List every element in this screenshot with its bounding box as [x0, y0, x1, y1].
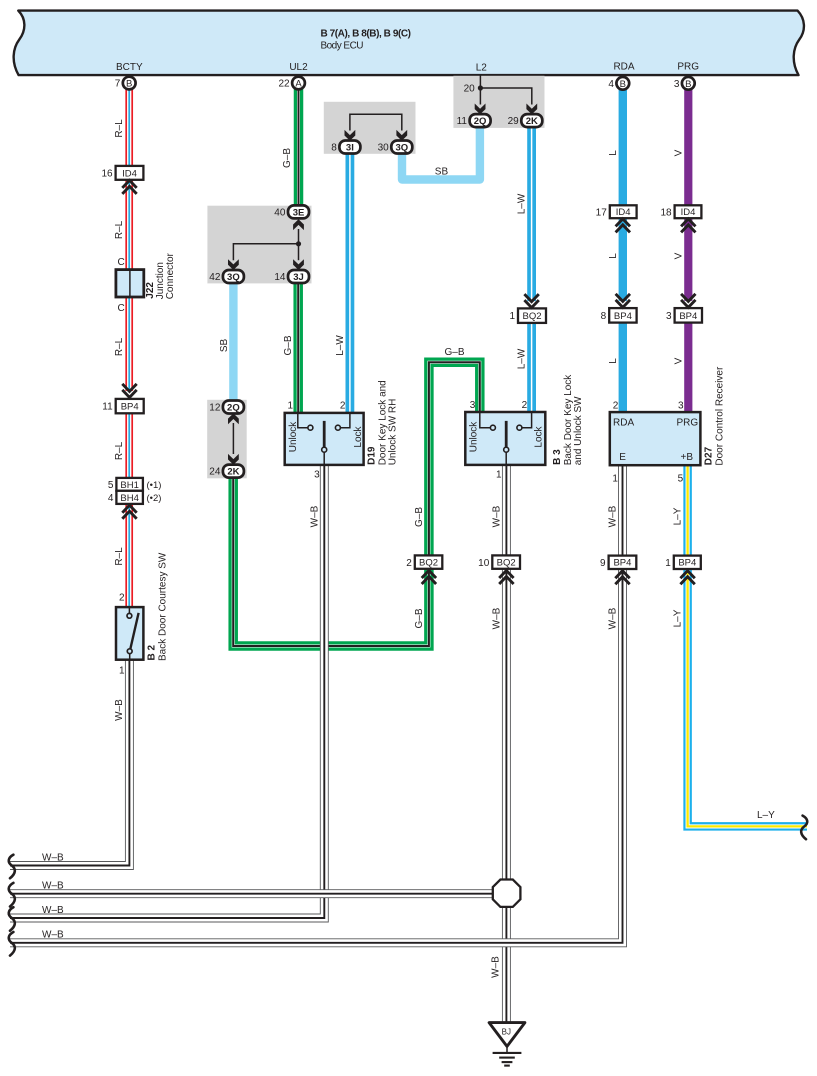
- svg-text:SB: SB: [435, 166, 449, 177]
- svg-text:(•2): (•2): [147, 493, 162, 504]
- wire L2 pin 20 lead: [479, 76, 481, 89]
- svg-text:RDA: RDA: [613, 418, 634, 429]
- chevron into 16 ID4: [122, 180, 136, 194]
- junction terminal 3J pin 14: [288, 270, 309, 283]
- svg-text:3E: 3E: [293, 207, 305, 218]
- svg-text:5: 5: [678, 474, 684, 485]
- ECU D27 Door Control Receiver: [610, 412, 701, 465]
- wire G-B loop from junction 2K(24) via BQ2 to B3 pin 3: [233, 362, 480, 646]
- pin 22(A) UL2: [292, 77, 305, 90]
- ground BJ: [489, 1023, 525, 1066]
- svg-text:W–B: W–B: [42, 881, 64, 892]
- gray junction block L2 (2Q/2K): [453, 76, 544, 128]
- svg-text:Connector: Connector: [165, 252, 176, 299]
- bridge wire 3I to 3Q(30): [350, 114, 402, 130]
- chevron into 2 BQ2: [422, 571, 436, 585]
- chevron into 1 BQ2: [524, 294, 538, 308]
- svg-text:SB: SB: [219, 339, 230, 353]
- svg-text:RDA: RDA: [613, 62, 634, 73]
- wire from node over to 3Q(42): [233, 244, 298, 260]
- svg-text:G–B: G–B: [445, 347, 465, 358]
- svg-text:40: 40: [274, 207, 286, 218]
- svg-text:B 3: B 3: [552, 449, 563, 465]
- svg-text:42: 42: [209, 272, 221, 283]
- svg-text:ID4: ID4: [122, 168, 137, 179]
- connector 8 BP4: [609, 308, 636, 323]
- pin 4(B) RDA: [616, 77, 629, 90]
- svg-text:R–L: R–L: [114, 547, 125, 566]
- svg-text:G–B: G–B: [282, 148, 293, 168]
- tear mark W-B line 3: [9, 907, 15, 931]
- wire SB from junction 3Q(42) to junction 2Q(12): [229, 283, 237, 402]
- chevron into 9 BP4: [615, 571, 629, 585]
- junction terminal 2Q pin 12: [223, 401, 244, 414]
- svg-text:V: V: [673, 252, 684, 259]
- svg-text:3J: 3J: [293, 272, 304, 283]
- svg-text:D19: D19: [367, 446, 378, 465]
- svg-text:W–B: W–B: [608, 607, 619, 629]
- svg-text:BJ: BJ: [502, 1028, 511, 1037]
- chevron into 17 ID4: [616, 219, 630, 233]
- svg-text:Unlock: Unlock: [468, 421, 479, 453]
- svg-text:12: 12: [209, 403, 221, 414]
- svg-text:ID4: ID4: [616, 207, 631, 218]
- svg-text:8: 8: [331, 143, 337, 154]
- wire from node 20 over to 2K(29): [480, 88, 531, 105]
- svg-text:G–B: G–B: [283, 335, 294, 355]
- connector 1 BQ2: [518, 308, 546, 323]
- wire L from connector 8 BP4 to D27 pin 2: [619, 323, 627, 413]
- svg-text:L–W: L–W: [335, 335, 346, 356]
- svg-text:W–B: W–B: [42, 905, 64, 916]
- svg-text:14: 14: [274, 272, 286, 283]
- svg-text:2: 2: [340, 401, 346, 412]
- svg-text:V: V: [673, 357, 684, 364]
- svg-text:L: L: [608, 150, 619, 156]
- gray junction block (2Q/2K) left: [207, 400, 247, 479]
- wire from 3E down to node: [298, 229, 300, 244]
- wire W-B from left tear to ground junction: [10, 889, 500, 898]
- svg-text:Body ECU: Body ECU: [321, 41, 364, 52]
- connector 9 BP4: [609, 556, 637, 569]
- svg-text:Back Door Courtesy SW: Back Door Courtesy SW: [158, 552, 169, 661]
- svg-text:(•1): (•1): [147, 480, 162, 491]
- svg-text:L–Y: L–Y: [673, 507, 684, 525]
- svg-text:L: L: [608, 253, 619, 259]
- chevron into 11 BP4: [122, 384, 136, 398]
- switch B3 Back Door Key Lock and Unlock SW: [465, 412, 545, 465]
- svg-text:R–L: R–L: [114, 119, 125, 138]
- tear mark W-B line 1: [9, 855, 15, 879]
- svg-text:D27: D27: [704, 446, 715, 465]
- svg-text:ID4: ID4: [681, 207, 696, 218]
- svg-text:3Q: 3Q: [395, 142, 408, 153]
- junction terminal 2Q pin 11: [470, 114, 491, 127]
- svg-text:2K: 2K: [227, 467, 239, 478]
- connector 18 ID4: [675, 205, 702, 218]
- junction terminal 3Q pin 42: [223, 270, 244, 283]
- chevron into 8 BP4: [616, 294, 630, 308]
- svg-text:3: 3: [470, 400, 476, 411]
- svg-text:2: 2: [613, 401, 619, 412]
- svg-text:W–B: W–B: [114, 699, 125, 721]
- svg-text:1: 1: [509, 311, 515, 322]
- svg-text:and Unlock SW: and Unlock SW: [573, 396, 584, 465]
- svg-text:3Q: 3Q: [227, 272, 240, 283]
- pin 7(B) BCTY: [123, 77, 136, 90]
- node L2 pin 20 junction: [478, 85, 483, 90]
- wire V from PRG pin 3 to connector 3 BP4: [684, 89, 692, 301]
- arrow into 3Q(42): [228, 259, 239, 270]
- svg-text:BP4: BP4: [614, 311, 632, 322]
- svg-text:1: 1: [496, 470, 502, 481]
- wire R-L from connector 11 BP4 to B2 pin 2: [125, 413, 133, 607]
- svg-text:3I: 3I: [346, 142, 354, 153]
- switch B2 Back Door Courtesy SW: [116, 607, 143, 660]
- svg-text:W–B: W–B: [309, 505, 320, 527]
- svg-text:11: 11: [457, 116, 468, 127]
- svg-text:G–B: G–B: [414, 608, 425, 628]
- svg-text:7: 7: [115, 79, 121, 90]
- svg-text:BH1: BH1: [120, 480, 138, 491]
- svg-text:3: 3: [674, 79, 680, 90]
- arrow into 2K(29): [526, 104, 537, 115]
- junction terminal 2K pin 29: [521, 114, 542, 127]
- wire W-B from B2 pin 1 to left tear: [10, 660, 129, 866]
- arrow into 3E: [293, 219, 304, 230]
- pin 3(B) PRG: [682, 77, 695, 90]
- wire L-W from junction 3I to D19 pin 2: [345, 154, 354, 414]
- tear mark L-Y line: [801, 816, 807, 840]
- svg-text:24: 24: [209, 467, 221, 478]
- svg-text:20: 20: [464, 84, 476, 95]
- wire R-L from BCTY pin 7 to connector 11 BP4: [125, 89, 133, 391]
- connector 17 ID4: [610, 205, 637, 218]
- chevron into 1 BP4: [680, 571, 694, 585]
- chevron into 10 BQ2: [499, 571, 513, 585]
- svg-text:BQ2: BQ2: [419, 558, 438, 569]
- chevron into BH4: [122, 505, 136, 519]
- svg-text:L2: L2: [476, 63, 488, 74]
- svg-text:1: 1: [612, 474, 618, 485]
- svg-text:W–B: W–B: [491, 607, 502, 629]
- arrow into 2Q(11): [475, 104, 486, 115]
- switch D19 Door Key Lock and Unlock SW RH: [285, 413, 364, 465]
- svg-text:W–B: W–B: [491, 505, 502, 527]
- svg-text:1: 1: [665, 558, 671, 569]
- wire V from connector 3 BP4 to D27 pin 3: [684, 323, 692, 413]
- svg-text:30: 30: [378, 143, 390, 154]
- wire from node to 3J: [298, 244, 300, 260]
- arrow into 2K(24): [228, 454, 239, 465]
- svg-text:Lock: Lock: [353, 425, 364, 447]
- svg-text:C: C: [117, 303, 124, 314]
- svg-text:UL2: UL2: [289, 62, 308, 73]
- ground junction octagon: [493, 880, 521, 907]
- connector 3 BP4: [675, 308, 702, 323]
- connector 5 BH1: [116, 478, 142, 491]
- svg-text:Lock: Lock: [534, 425, 545, 447]
- svg-text:R–L: R–L: [114, 337, 125, 356]
- svg-text:L–W: L–W: [517, 348, 528, 369]
- wire L from RDA pin 4 to connector 8 BP4: [619, 89, 627, 301]
- arrow from 2Q(12) down-link: [228, 413, 239, 424]
- svg-text:BP4: BP4: [678, 558, 696, 569]
- connector 16 ID4: [116, 166, 144, 180]
- svg-text:L: L: [608, 358, 619, 364]
- svg-text:W–B: W–B: [42, 930, 64, 941]
- wire L-W from connector 1 BQ2 to B3 pin 2: [527, 323, 536, 413]
- svg-text:9: 9: [600, 558, 606, 569]
- svg-text:BCTY: BCTY: [116, 62, 143, 73]
- svg-text:B 7(A), B 8(B), B 9(C): B 7(A), B 8(B), B 9(C): [321, 29, 412, 40]
- svg-text:R–L: R–L: [114, 220, 125, 239]
- svg-text:B 2: B 2: [147, 645, 158, 661]
- connector 2 BQ2: [415, 555, 443, 568]
- svg-text:3: 3: [678, 401, 684, 412]
- svg-text:3: 3: [314, 470, 320, 481]
- svg-text:Door Control Receiver: Door Control Receiver: [715, 366, 726, 466]
- svg-text:A: A: [295, 79, 302, 90]
- wire SB from junction 3Q(30) to junction 2Q(11): [402, 127, 480, 180]
- svg-text:4: 4: [108, 493, 114, 504]
- svg-text:BP4: BP4: [121, 402, 139, 413]
- svg-text:4: 4: [608, 79, 614, 90]
- svg-text:BP4: BP4: [613, 558, 631, 569]
- chevron into 3 BP4: [681, 294, 695, 308]
- svg-text:G–B: G–B: [414, 507, 425, 527]
- junction terminal 3E: [288, 205, 309, 218]
- svg-text:BQ2: BQ2: [522, 311, 541, 322]
- gray junction block (3I/3Q): [324, 102, 416, 154]
- svg-text:5: 5: [108, 480, 114, 491]
- svg-text:L–Y: L–Y: [757, 810, 775, 821]
- arrow into 3I: [345, 130, 356, 141]
- wire W-B from B3 pin 1 through BQ2 to ground junction and BJ ground: [502, 465, 511, 1024]
- svg-text:17: 17: [596, 208, 608, 219]
- svg-text:+B: +B: [681, 452, 694, 463]
- junction connector J22: [116, 270, 144, 297]
- svg-text:W–B: W–B: [42, 852, 64, 863]
- connector 4 BH4: [116, 491, 142, 504]
- svg-text:2Q: 2Q: [474, 116, 487, 127]
- svg-text:B: B: [685, 79, 691, 90]
- tear mark W-B line 2: [9, 883, 15, 907]
- connector 1 BP4: [674, 556, 701, 569]
- junction terminal 3I pin 8: [339, 141, 360, 154]
- svg-text:2Q: 2Q: [227, 402, 240, 413]
- svg-text:2: 2: [406, 558, 412, 569]
- junction terminal 2K pin 24: [223, 465, 244, 478]
- svg-text:V: V: [673, 149, 684, 156]
- svg-text:2: 2: [119, 593, 125, 604]
- svg-text:B: B: [620, 79, 626, 90]
- wire G-B from junction 3J to D19 pin 1: [293, 283, 303, 414]
- tear mark W-B line 4: [9, 932, 15, 956]
- svg-text:16: 16: [101, 168, 113, 179]
- svg-text:W–B: W–B: [491, 956, 502, 978]
- wire from node 20 down to 2Q(11): [479, 88, 481, 105]
- svg-text:11: 11: [102, 402, 113, 413]
- junction terminal 3Q pin 30: [391, 141, 412, 154]
- connector 10 BQ2: [492, 555, 520, 568]
- node below 3E: [296, 241, 301, 246]
- svg-text:B: B: [126, 79, 132, 90]
- ECU connector bar B7/B8/B9 Body ECU: [14, 11, 804, 76]
- wire G-B from UL2 pin 22 to junction 3E: [294, 89, 304, 207]
- arrow into 3J: [293, 259, 304, 270]
- svg-text:W–B: W–B: [608, 505, 619, 527]
- arrow into 3Q(30): [396, 130, 407, 141]
- wire W-B from D19 pin 3 to left tear: [10, 465, 324, 919]
- svg-text:C: C: [117, 257, 124, 268]
- svg-text:L–W: L–W: [517, 193, 528, 214]
- svg-text:BH4: BH4: [120, 493, 138, 504]
- svg-text:Unlock SW RH: Unlock SW RH: [388, 399, 399, 466]
- svg-text:1: 1: [119, 666, 125, 677]
- svg-text:PRG: PRG: [677, 62, 699, 73]
- chevron into 18 ID4: [681, 219, 695, 233]
- svg-text:18: 18: [660, 208, 672, 219]
- svg-text:29: 29: [508, 116, 520, 127]
- svg-text:BQ2: BQ2: [497, 558, 516, 569]
- svg-text:E: E: [619, 452, 626, 463]
- svg-text:R–L: R–L: [114, 441, 125, 460]
- gray junction block UL2 (3E/3Q/3J): [207, 206, 311, 284]
- svg-text:8: 8: [601, 311, 607, 322]
- svg-text:L–Y: L–Y: [673, 609, 684, 627]
- connector 11 BP4: [116, 399, 144, 413]
- svg-text:2: 2: [522, 400, 528, 411]
- svg-text:3: 3: [666, 311, 672, 322]
- link wire 2Q(12) to 2K(24): [232, 423, 234, 454]
- svg-text:BP4: BP4: [679, 311, 697, 322]
- svg-text:10: 10: [478, 558, 490, 569]
- svg-text:22: 22: [278, 79, 290, 90]
- wire L-W from junction 2K(29) to connector 1 BQ2: [527, 127, 536, 301]
- svg-text:PRG: PRG: [677, 418, 699, 429]
- wire W-B from D27 pin E to left tear: [10, 465, 623, 943]
- svg-text:1: 1: [288, 401, 294, 412]
- svg-text:Unlock: Unlock: [288, 421, 299, 453]
- wire L-Y from D27 pin +B to right tear: [688, 465, 807, 827]
- svg-text:2K: 2K: [526, 116, 538, 127]
